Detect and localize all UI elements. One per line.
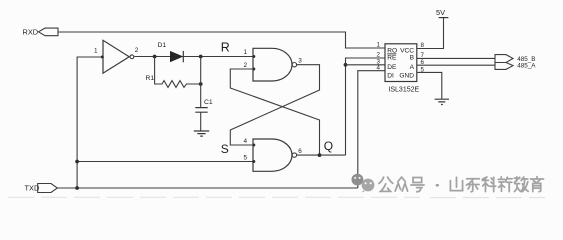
svg-text:2: 2	[244, 62, 248, 69]
port TXD	[25, 184, 58, 193]
svg-text:1: 1	[244, 49, 248, 56]
svg-text:RXD: RXD	[23, 27, 39, 36]
svg-text:TXD: TXD	[25, 184, 40, 193]
watermark text 公众号 · 山东科新教育	[379, 177, 544, 192]
wire A to port	[417, 64, 495, 66]
wire gate3 output to cross to pin4	[230, 65, 319, 145]
wire pin2 to cross to Q	[230, 69, 319, 155]
wire Q riser to RE/DE	[345, 65, 347, 155]
junction R1/C1	[199, 82, 203, 86]
svg-text:ISL3152E: ISL3152E	[388, 86, 419, 93]
svg-text:DE: DE	[387, 64, 397, 71]
wire RE	[346, 58, 386, 65]
svg-text:B: B	[410, 55, 415, 62]
wire Q output row	[297, 154, 346, 156]
wire C1 drop	[200, 57, 202, 108]
junction S	[75, 160, 79, 164]
power 5V	[417, 8, 449, 48]
port 485_B	[495, 55, 536, 63]
ground (IC)	[435, 99, 449, 104]
wire S input	[77, 161, 253, 163]
wire DI riser	[358, 71, 385, 188]
scan artifact line bottom	[8, 196, 545, 198]
wire B to port	[417, 57, 495, 59]
port RXD	[23, 27, 59, 36]
wire inverter output row	[134, 56, 253, 58]
svg-text:RE: RE	[387, 55, 397, 62]
char ke	[482, 177, 496, 192]
capacitor C1	[195, 99, 213, 112]
junction diode cathode	[199, 55, 203, 59]
wire pin5 GND	[417, 72, 442, 98]
wire TXD riser to inverter	[77, 57, 103, 188]
svg-text:485_A: 485_A	[517, 63, 536, 70]
resistor R1	[146, 57, 201, 88]
char dong	[466, 179, 479, 192]
svg-text:S: S	[221, 142, 229, 156]
char shan	[450, 177, 462, 190]
svg-text:Q: Q	[324, 139, 333, 153]
wire RXD to RO (net RXD)	[58, 32, 385, 48]
port 485_A	[495, 63, 536, 70]
char zhong	[395, 177, 407, 191]
NAND gate U1A (top)	[244, 48, 303, 81]
svg-text:R: R	[221, 41, 230, 55]
svg-text:5: 5	[244, 155, 248, 162]
wire TXD horizontal	[57, 187, 357, 189]
char gong	[379, 177, 393, 191]
svg-text:A: A	[410, 64, 415, 71]
junction TXD riser	[75, 186, 79, 190]
junction DE	[344, 63, 348, 67]
NAND gate U1B (bottom)	[244, 138, 303, 171]
middot	[436, 184, 439, 186]
junction diode anode	[153, 55, 157, 59]
junction Q	[318, 153, 322, 157]
char xin	[498, 177, 512, 192]
char yu	[530, 177, 543, 192]
svg-text:R1: R1	[146, 75, 155, 82]
svg-text:1: 1	[94, 48, 98, 55]
svg-text:5V: 5V	[436, 8, 445, 17]
svg-text:4: 4	[244, 138, 248, 145]
svg-text:1: 1	[377, 42, 381, 49]
IC U3 ISL3152E	[377, 42, 425, 94]
svg-text:2: 2	[135, 47, 139, 54]
svg-text:3: 3	[298, 58, 302, 65]
svg-text:VCC: VCC	[400, 48, 414, 55]
wire C1 to ground	[200, 112, 202, 131]
svg-text:6: 6	[298, 148, 302, 155]
ground (C1)	[194, 131, 209, 136]
diode D1	[158, 42, 184, 62]
svg-text:GND: GND	[399, 73, 414, 80]
char jiao	[514, 177, 528, 192]
svg-text:C1: C1	[204, 99, 213, 106]
char hao	[411, 178, 424, 192]
svg-text:D1: D1	[158, 42, 167, 49]
wire DE	[346, 64, 386, 66]
inverter U2	[94, 40, 139, 73]
watermark wechat icons	[352, 174, 375, 192]
svg-text:4: 4	[377, 64, 381, 71]
svg-text:DI: DI	[387, 73, 394, 80]
